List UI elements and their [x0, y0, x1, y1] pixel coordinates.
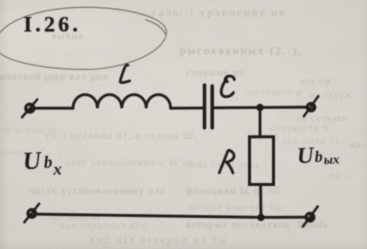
wire node to output terminal [260, 106, 306, 109]
wire inductor to capacitor [171, 107, 203, 110]
svg-text:I.26.: I.26. [24, 12, 82, 37]
terminal input bottom (slashed circle) [24, 204, 39, 223]
bottom rail wire [38, 214, 305, 217]
capacitor C right plate [210, 86, 214, 128]
terminal output bottom (slashed circle) [303, 206, 318, 226]
svg-text:b: b [314, 149, 323, 166]
svg-text:x: x [52, 159, 63, 178]
svg-text:ыx: ыx [323, 151, 340, 167]
label R [219, 150, 234, 173]
resistor R body [250, 137, 274, 185]
faint bleed-through lines from reverse page [152, 7, 286, 19]
capacitor C left plate [203, 85, 207, 128]
label C (script) [221, 76, 234, 97]
terminal output top (slashed circle) [304, 96, 319, 116]
svg-text:b: b [43, 152, 52, 171]
inductor L coil [73, 95, 171, 109]
wire node down to resistor [259, 108, 262, 138]
pencil ellipse around figure number [0, 7, 167, 69]
label L (script) [120, 65, 130, 83]
wire resistor to bottom rail [259, 185, 262, 218]
wire capacitor to node [214, 106, 260, 109]
wire top-left [35, 107, 73, 110]
label U_in [22, 146, 63, 180]
svg-text:U: U [22, 147, 43, 175]
terminal input top (slashed circle) [22, 99, 37, 117]
junction node top [256, 104, 263, 111]
label U_out [296, 141, 340, 168]
svg-text:U: U [296, 143, 315, 169]
junction node bottom [257, 214, 264, 221]
